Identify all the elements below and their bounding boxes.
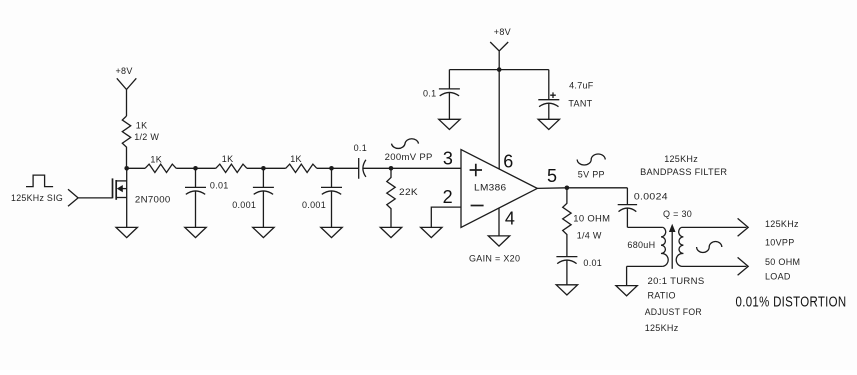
wire output pin5 xyxy=(537,187,627,190)
pin 2 wire xyxy=(431,207,461,227)
ground under 4.7uF xyxy=(538,119,559,129)
capacitor 0.001 first plates xyxy=(253,187,274,194)
svg-text:Q = 30: Q = 30 xyxy=(663,209,692,219)
svg-text:0.0024: 0.0024 xyxy=(634,191,668,201)
svg-text:1K: 1K xyxy=(290,154,302,164)
power +8V symbol left xyxy=(117,78,137,116)
node N1 xyxy=(193,166,198,171)
svg-text:1K: 1K xyxy=(136,120,148,130)
capacitor 0.001 first bottom lead xyxy=(262,191,264,227)
svg-text:4.7uF: 4.7uF xyxy=(569,81,594,91)
capacitor 0.01 lead xyxy=(195,168,197,187)
ground under C3 xyxy=(321,227,342,237)
transformer T1 secondary winding xyxy=(676,227,683,266)
capacitor 0.001 second lead xyxy=(331,168,333,187)
svg-text:125KHz: 125KHz xyxy=(645,323,679,333)
wire gate lead xyxy=(78,197,112,199)
ground under transformer xyxy=(616,286,637,296)
ground under pin4 xyxy=(488,236,509,246)
pin 4 ground wire xyxy=(498,208,500,236)
svg-text:1K: 1K xyxy=(150,154,162,164)
capacitor 0.1 bypass bottom lead xyxy=(448,93,450,120)
svg-text:200mV PP: 200mV PP xyxy=(385,152,433,162)
sine symbol 5V PP xyxy=(577,154,605,165)
wire primary ground stub xyxy=(626,266,628,285)
wire primary top rail xyxy=(627,226,663,228)
power +8V symbol top xyxy=(490,42,508,70)
svg-text:2N7000: 2N7000 xyxy=(135,195,171,205)
svg-text:50 OHM: 50 OHM xyxy=(765,257,800,267)
ground under C1 xyxy=(185,227,206,237)
wire +8V rail xyxy=(449,69,548,71)
svg-text:+8V: +8V xyxy=(494,27,511,37)
ground under output cap xyxy=(556,285,577,295)
arrowhead top output xyxy=(738,218,749,236)
svg-text:680uH: 680uH xyxy=(627,240,655,250)
svg-text:LOAD: LOAD xyxy=(765,272,791,282)
resistor R 1K third xyxy=(286,164,317,172)
op-amp U1 LM386 triangle xyxy=(461,150,537,228)
sine symbol output xyxy=(697,242,722,253)
svg-text:22K: 22K xyxy=(399,187,418,197)
svg-text:BANDPASS FILTER: BANDPASS FILTER xyxy=(640,167,727,177)
capacitor 0.0024 plates xyxy=(618,205,637,212)
transistor Q1 channel bar xyxy=(115,180,117,200)
ground under bypass cap xyxy=(439,119,460,129)
capacitor 0.1 bypass plates xyxy=(439,89,460,96)
sine symbol 200mV xyxy=(392,139,419,149)
svg-text:+8V: +8V xyxy=(116,66,133,76)
resistor 22K xyxy=(387,168,395,227)
pulse waveform symbol xyxy=(26,175,53,187)
capacitor 0.01 output bottom lead xyxy=(566,260,568,285)
capacitor 4.7uF lead xyxy=(548,70,550,100)
svg-text:TANT: TANT xyxy=(568,99,592,109)
svg-text:1/2 W: 1/2 W xyxy=(134,132,159,142)
capacitor 0.0024 bottom lead xyxy=(626,208,628,227)
node N2 xyxy=(261,166,266,171)
node +8V junction xyxy=(497,67,502,72)
wire secondary top output xyxy=(682,226,747,228)
svg-text:5V PP: 5V PP xyxy=(578,170,605,180)
capacitor 0.001 second bottom lead xyxy=(331,191,333,227)
svg-text:0.01: 0.01 xyxy=(210,181,229,191)
transistor Q1 drain stub xyxy=(116,180,127,182)
capacitor 4.7uF plates xyxy=(538,100,559,107)
capacitor 0.001 second plates xyxy=(321,187,342,194)
node N4 xyxy=(389,166,394,171)
node N5 xyxy=(565,186,570,191)
ground under Q1 xyxy=(116,227,137,237)
svg-text:LM386: LM386 xyxy=(474,182,507,192)
pin 6 supply wire xyxy=(498,70,500,169)
svg-text:5: 5 xyxy=(547,166,557,186)
svg-text:0.01: 0.01 xyxy=(583,258,602,268)
svg-text:ADJUST FOR: ADJUST FOR xyxy=(645,307,702,317)
wire secondary bottom output xyxy=(682,265,747,267)
svg-text:0.001: 0.001 xyxy=(232,200,256,210)
svg-text:RATIO: RATIO xyxy=(648,291,676,301)
ground under pin2 xyxy=(421,227,442,237)
resistor R 1K second xyxy=(216,164,247,172)
capacitor 0.01 plates xyxy=(185,187,206,194)
resistor 1K 1/2W xyxy=(122,116,130,168)
transistor Q1 body arrow xyxy=(117,185,123,192)
svg-text:125KHz: 125KHz xyxy=(664,154,698,164)
capacitor 0.0024 lead xyxy=(626,188,628,205)
svg-text:3: 3 xyxy=(443,148,453,168)
resistor R 1K first xyxy=(145,164,176,172)
wire rail segment 1 xyxy=(127,167,145,169)
svg-text:1K: 1K xyxy=(222,154,234,164)
node drain junction xyxy=(124,166,129,171)
svg-text:125KHz SIG: 125KHz SIG xyxy=(11,193,63,203)
op-amp minus input sign xyxy=(471,205,484,207)
svg-text:10 OHM: 10 OHM xyxy=(573,214,610,224)
resistor 10 OHM xyxy=(563,188,571,257)
capacitor 0.1 coupling plates xyxy=(359,158,366,179)
svg-text:10VPP: 10VPP xyxy=(765,238,795,248)
node N3 xyxy=(329,166,334,171)
transformer T1 tuning arrow xyxy=(671,230,673,269)
svg-text:125KHz: 125KHz xyxy=(765,219,799,229)
wire drain-source vertical xyxy=(126,168,128,227)
transistor Q1 source stub xyxy=(116,197,127,199)
arrowhead bottom output xyxy=(738,257,749,275)
wire rail segment 2 xyxy=(176,167,216,169)
input connector chevron xyxy=(68,189,78,206)
capacitor 0.01 bottom lead xyxy=(195,191,197,227)
transistor Q1 body stub xyxy=(119,188,127,190)
wire rail segment 4 xyxy=(317,167,359,169)
wire primary bottom rail xyxy=(627,265,663,267)
svg-text:0.1: 0.1 xyxy=(354,143,367,153)
capacitor 0.001 first lead xyxy=(262,168,264,187)
svg-text:4: 4 xyxy=(505,208,515,228)
transistor Q1 2N7000 gate bar xyxy=(112,178,114,198)
wire rail segment 3 xyxy=(247,167,286,169)
svg-text:1/4 W: 1/4 W xyxy=(577,230,602,240)
wire rail segment 5 xyxy=(363,167,461,169)
capacitor 4.7uF bottom lead xyxy=(548,103,550,119)
ground under 22K xyxy=(380,227,401,237)
svg-text:2: 2 xyxy=(443,187,453,207)
svg-text:20:1 TURNS: 20:1 TURNS xyxy=(648,276,705,286)
svg-text:0.001: 0.001 xyxy=(302,200,326,210)
capacitor 0.1 bypass lead xyxy=(448,70,450,89)
svg-text:0.1: 0.1 xyxy=(423,89,436,99)
op-amp plus input sign xyxy=(470,164,482,176)
transformer T1 primary winding xyxy=(661,227,668,266)
ground under C2 xyxy=(253,227,274,237)
capacitor 0.01 output plates xyxy=(556,257,577,264)
svg-text:0.01% DISTORTION: 0.01% DISTORTION xyxy=(736,295,847,311)
svg-text:GAIN = X20: GAIN = X20 xyxy=(469,254,520,264)
svg-text:6: 6 xyxy=(503,152,513,172)
capacitor 4.7uF plus sign xyxy=(550,92,556,98)
